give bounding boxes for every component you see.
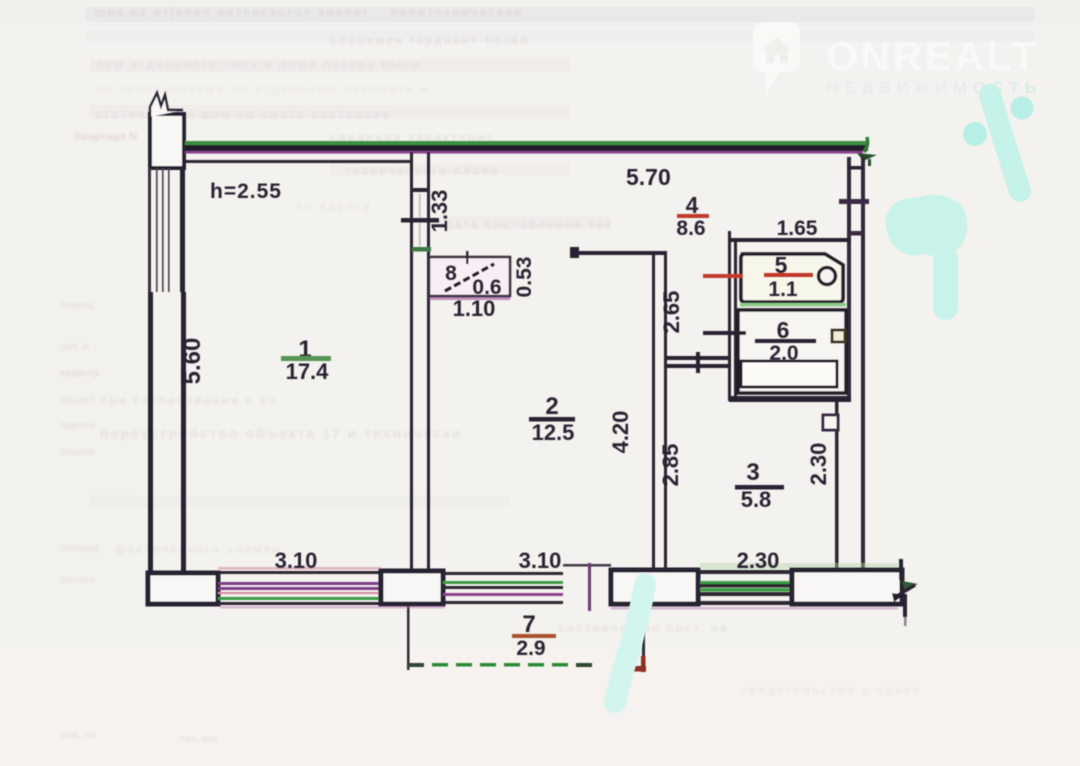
- svg-text:4.20: 4.20: [608, 411, 633, 454]
- svg-text:2.9: 2.9: [516, 637, 545, 660]
- wall break symbol top-left: [150, 93, 184, 168]
- left exterior wall lower: [148, 292, 186, 573]
- svg-text:3.10: 3.10: [519, 548, 562, 573]
- svg-text:объект: объект: [60, 394, 95, 406]
- cyan dot right: [1011, 97, 1034, 120]
- svg-text:5.8: 5.8: [741, 487, 772, 512]
- door tick room 6: [703, 331, 746, 335]
- svg-text:1.65: 1.65: [777, 217, 818, 240]
- ghost rows left margin: [60, 300, 219, 745]
- svg-text:1.1: 1.1: [768, 278, 798, 301]
- balcony dashed front: [408, 663, 592, 667]
- svg-text:3.10: 3.10: [275, 548, 318, 573]
- closet 8 box: [429, 251, 510, 300]
- svg-text:1.33: 1.33: [427, 190, 452, 233]
- svg-text:при согласовании с уч: при согласовании с уч: [100, 393, 277, 407]
- magenta fringe under bottom wall left: [220, 606, 445, 609]
- svg-text:современ гардиант-позал: современ гардиант-позал: [330, 33, 529, 47]
- svg-text:переустройство объекта 17 и те: переустройство объекта 17 и технически: [100, 425, 463, 441]
- bathroom top wall with 1.65 ticks: [728, 231, 851, 247]
- bottom wall: pier block 3: [792, 570, 902, 604]
- balcony corner dark red: [627, 656, 646, 672]
- ghost reddish line: [75, 131, 137, 143]
- cyan blob: [886, 195, 968, 256]
- balcony door gap: [563, 563, 611, 611]
- svg-text:2.30: 2.30: [806, 443, 831, 486]
- room 6 box: [738, 310, 846, 393]
- bottom wall: pier block 1: [381, 571, 443, 604]
- svg-text:2.0: 2.0: [769, 342, 798, 365]
- svg-text:2: 2: [545, 393, 558, 420]
- ghost wide bands: [85, 7, 1035, 229]
- room 6 inner fixture: [741, 361, 837, 387]
- svg-text:2.30: 2.30: [737, 548, 780, 573]
- room 2 top wall stub: [570, 247, 667, 258]
- svg-text:статичност и дом по смотр сост: статичност и дом по смотр составляе: [95, 107, 391, 121]
- balcony left edge: [407, 606, 410, 670]
- svg-text:2.85: 2.85: [658, 444, 683, 487]
- svg-text:шва на отjanos интенского» ана: шва на отjanos интенского» аналог: [95, 5, 370, 19]
- north arrow at top-right wall end: [857, 137, 877, 166]
- svg-text:ONREALT: ONREALT: [826, 33, 1042, 79]
- svg-text:h=2.55: h=2.55: [210, 180, 282, 203]
- logo house cutout: [762, 37, 792, 63]
- balcony right edge: [642, 621, 645, 668]
- magenta fringe under bottom wall right: [611, 607, 898, 610]
- svg-text:лит. А: лит. А: [60, 342, 89, 353]
- room 3 label: [735, 459, 784, 512]
- bottom wall: window A: [218, 567, 381, 605]
- top wall inner face (room 1): [186, 160, 412, 163]
- branch wall to bathroom: [666, 352, 729, 373]
- svg-text:свидетельство о праве: свидетельство о праве: [740, 683, 921, 697]
- window 1.33 ticks: [401, 188, 439, 252]
- svg-text:лом атдельного типа и дома лит: лом атдельного типа и дома литера высо: [95, 57, 421, 71]
- ghost faint band mid: [90, 495, 510, 507]
- cyan dot left: [963, 122, 987, 146]
- bottom-left corner wall block: [148, 573, 218, 604]
- svg-text:7: 7: [522, 611, 535, 638]
- watermark logo ONREALT: [753, 22, 1042, 97]
- bottom wall: window B: [443, 572, 563, 604]
- bathroom bottom wall: [729, 396, 851, 402]
- svg-text:площад: площад: [60, 543, 99, 554]
- room 2 label: [529, 393, 575, 445]
- svg-text:дата составления тех: дата составления тех: [445, 217, 614, 231]
- svg-text:кадастр: кадастр: [60, 368, 99, 379]
- svg-text:по адресу: по адресу: [295, 199, 372, 213]
- room 6 label: [755, 317, 816, 365]
- interior wall rooms 1|2 left line: [410, 152, 413, 573]
- window left (5.60 wall): [148, 168, 185, 292]
- svg-text:8: 8: [445, 262, 457, 285]
- svg-text:8.6: 8.6: [676, 217, 705, 240]
- hatch square below bathroom: [823, 415, 838, 430]
- svg-text:0.6: 0.6: [472, 276, 501, 299]
- svg-text:0.53: 0.53: [513, 257, 536, 298]
- interior wall rooms 1|2 right line: [427, 152, 430, 573]
- hall wall (rooms 2,3 | hall): [652, 253, 667, 571]
- right exterior wall: [847, 157, 865, 571]
- svg-text:фактического элемен: фактического элемен: [115, 542, 281, 556]
- ghost bleed-through text rows: [95, 5, 921, 697]
- svg-text:помещ: помещ: [60, 300, 94, 311]
- svg-text:адресо: адресо: [60, 420, 95, 431]
- svg-text:политехническая: политехническая: [390, 5, 523, 19]
- green halo above right bottom wall: [700, 563, 902, 569]
- svg-text:12.5: 12.5: [532, 420, 575, 445]
- svg-text:тех. пас: тех. пас: [180, 734, 219, 745]
- svg-text:технического плана: технического плана: [345, 163, 499, 177]
- svg-text:5.60: 5.60: [179, 338, 206, 385]
- svg-text:по техническому по отделению п: по техническому по отделению паспорта и: [95, 82, 429, 96]
- vent square room 6: [832, 330, 845, 342]
- room 5 label: [764, 252, 813, 301]
- svg-text:5.70: 5.70: [626, 164, 671, 190]
- room 4 label: [676, 192, 709, 240]
- room 1 label: [281, 336, 331, 384]
- wall break bottom-right: [892, 559, 918, 626]
- svg-text:этажно: этажно: [60, 447, 95, 458]
- bathroom left wall: [728, 239, 737, 401]
- window ticks right wall: [839, 166, 869, 236]
- top exterior wall: [185, 141, 868, 154]
- room 8 label with slash: [445, 262, 502, 299]
- svg-text:3: 3: [746, 459, 759, 486]
- wall below bathroom: [835, 402, 839, 571]
- cyan stroke top-right: [990, 95, 1020, 191]
- toilet circle room 5: [819, 268, 836, 285]
- cyan stroke bottom: [615, 584, 645, 702]
- room 7 label: [512, 611, 556, 660]
- bathtub room 5 outline: [741, 254, 843, 302]
- bottom wall: pier block 2: [611, 570, 698, 604]
- svg-text:балкон: балкон: [60, 574, 95, 586]
- svg-text:1.10: 1.10: [453, 296, 496, 321]
- bottom wall: window C: [700, 570, 792, 605]
- svg-text:Квартира N: Квартира N: [75, 131, 137, 143]
- green fringe under tub: [740, 303, 846, 307]
- logo pin bubble: [753, 22, 800, 94]
- svg-text:17.4: 17.4: [286, 359, 330, 384]
- svg-text:2.65: 2.65: [659, 291, 684, 334]
- svg-text:инв. но: инв. но: [60, 730, 96, 741]
- door tick room 5 (red): [703, 274, 743, 278]
